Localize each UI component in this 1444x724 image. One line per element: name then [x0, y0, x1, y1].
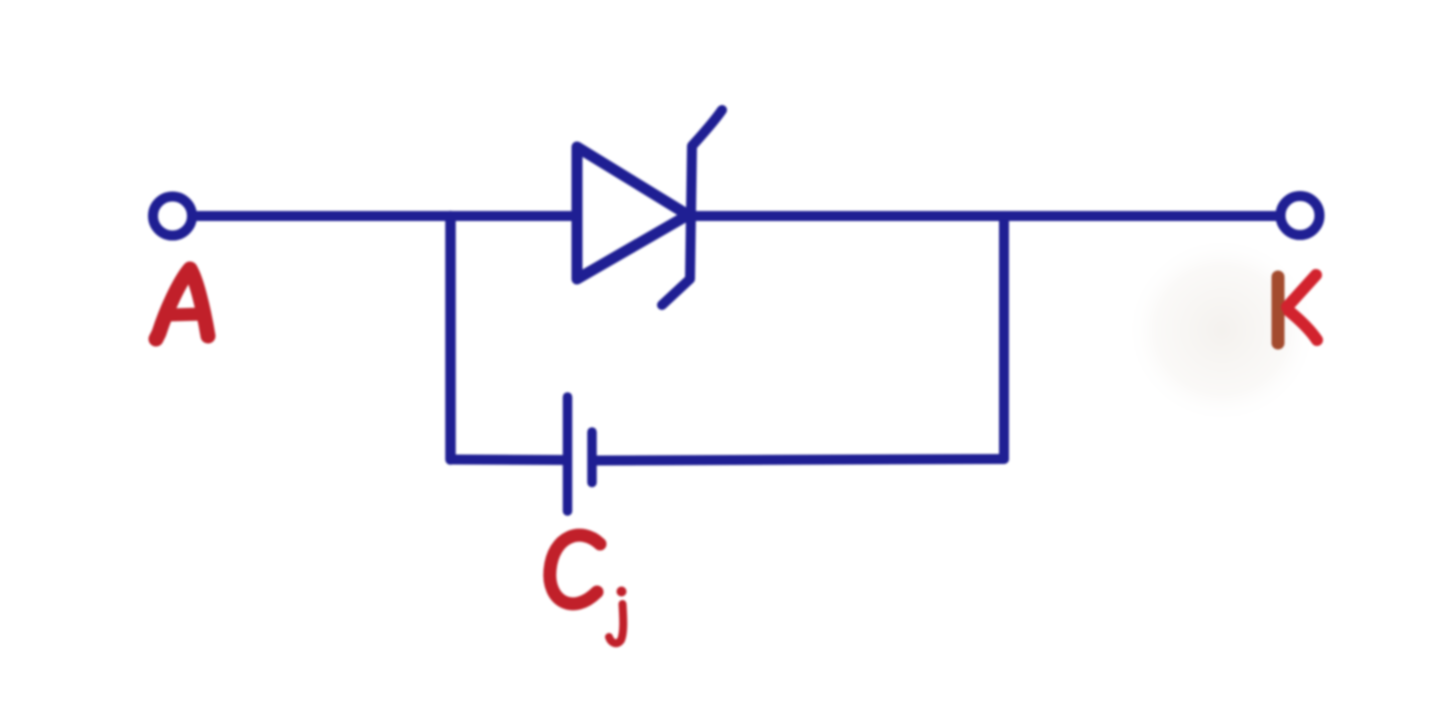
wire from diode cathode to K [689, 211, 1277, 221]
label Cj subscript j dot [617, 587, 627, 597]
smudge background near K [1127, 238, 1317, 422]
varactor diode D: anode triangle [577, 147, 688, 279]
label K diagonals [1287, 275, 1316, 307]
label K (cathode) vertical bar [1272, 277, 1285, 343]
label Cj subscript j stem [609, 604, 623, 643]
capacitor Cj right plate [587, 432, 597, 483]
terminal A circle [153, 197, 192, 236]
wire right branch vertical [999, 216, 1009, 459]
wire from A to diode anode [197, 211, 572, 221]
wire left branch vertical [445, 216, 456, 460]
varactor diode D: cathode bar with bent hooks [662, 110, 722, 305]
wire bottom-left to capacitor [451, 455, 564, 466]
capacitor Cj left plate [563, 397, 573, 511]
label Cj letter C [550, 535, 600, 604]
label A (anode) [156, 269, 208, 339]
terminal K circle [1281, 196, 1320, 235]
wire bottom-right from capacitor [596, 459, 1004, 461]
